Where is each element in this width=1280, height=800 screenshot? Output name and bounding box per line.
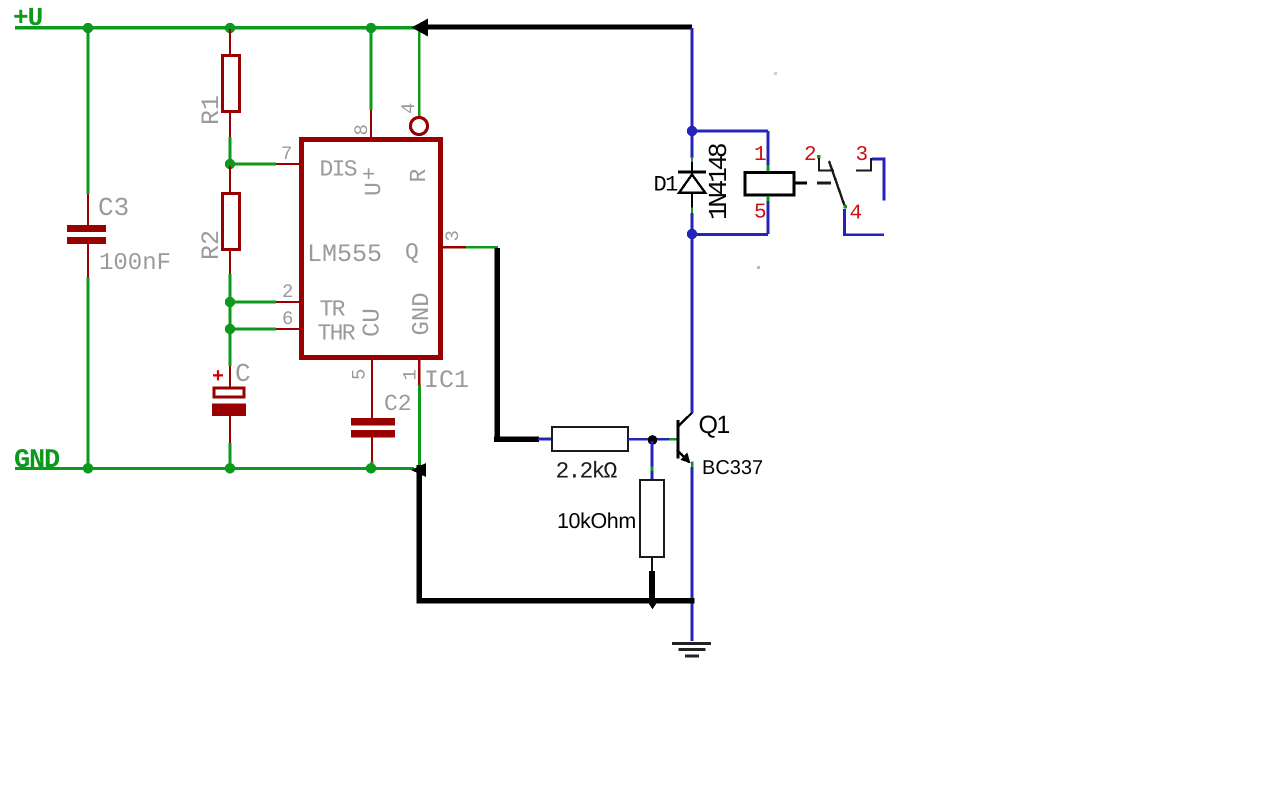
resistor 2.2k: [552, 427, 628, 485]
wire relay bottom horizontal: [692, 233, 768, 236]
wire 2.2k to base node: [628, 438, 677, 441]
junction blob 10k-emitter: [645, 598, 660, 609]
wire emitter blue: [691, 462, 694, 642]
wire GND rail: [15, 467, 414, 470]
resistor R1: [197, 29, 240, 137]
switch contact 3 number: [856, 144, 869, 167]
relay actuator stub: [795, 182, 807, 185]
wire relay pin5 vertical: [767, 196, 770, 234]
svg-text:1: 1: [400, 369, 422, 380]
relay pin number 5: [754, 202, 767, 225]
reset bubble pin4: [411, 118, 428, 135]
switch contact 3: [856, 158, 872, 172]
svg-text:3: 3: [856, 144, 869, 167]
pin number 1: [400, 369, 422, 380]
stray dot artifact 2: [774, 72, 777, 75]
junction dot GND-C2: [366, 463, 376, 473]
wire to 2.2k resistor: [538, 438, 552, 441]
svg-text:2.2kΩ: 2.2kΩ: [556, 459, 618, 485]
switch blade: [829, 161, 845, 207]
black V+ jumper wire with arrow: [412, 19, 693, 37]
relay coil K1: [745, 173, 794, 196]
junction dot TR: [225, 297, 235, 307]
wire pin8 V+: [370, 28, 373, 140]
svg-text:LM555: LM555: [307, 240, 382, 269]
svg-text:2: 2: [804, 144, 817, 167]
svg-text:R: R: [406, 169, 432, 183]
svg-text:D1: D1: [654, 173, 679, 198]
svg-text:R1: R1: [197, 95, 226, 125]
switch contact 4 number: [850, 203, 863, 226]
pin number 4: [398, 103, 420, 114]
svg-text:1: 1: [754, 144, 767, 167]
svg-text:4: 4: [850, 203, 863, 226]
wire pin5 CV: [371, 357, 373, 418]
black GND jumper wire with arrow: [411, 463, 694, 604]
diode D1 label: [654, 173, 679, 198]
svg-text:THR: THR: [318, 321, 356, 347]
IC1 reference label: [424, 366, 469, 395]
pin number 2: [282, 281, 293, 303]
svg-text:C: C: [235, 359, 251, 389]
junction dot C: [366, 23, 376, 33]
transistor value BC337: [702, 457, 763, 479]
svg-text:BC337: BC337: [702, 457, 763, 479]
svg-text:1N4148: 1N4148: [704, 144, 734, 220]
wire pin1 GND: [418, 357, 421, 468]
svg-text:R2: R2: [197, 230, 226, 260]
switch actuator dash: [817, 182, 831, 185]
svg-text:IC1: IC1: [424, 366, 469, 395]
svg-text:C3: C3: [98, 193, 129, 223]
resistor 10k: [557, 480, 664, 557]
wire C3 branch vertical: [87, 28, 90, 468]
svg-text:3: 3: [442, 230, 464, 241]
junction dot relay bottom: [687, 229, 697, 239]
svg-text:5: 5: [754, 202, 767, 225]
svg-text:U: U: [361, 182, 387, 196]
svg-text:CU: CU: [360, 308, 387, 337]
wire base node to 10k: [651, 441, 654, 480]
wire 10k bottom: [649, 557, 655, 601]
wire relay pin1 vertical: [767, 131, 770, 172]
svg-text:8: 8: [351, 124, 373, 135]
wire R1 to DIS node: [229, 137, 232, 164]
pin number 3: [442, 230, 464, 241]
svg-text:4: 4: [398, 103, 420, 114]
resistor R2: [197, 166, 240, 274]
svg-text:C2: C2: [384, 391, 412, 417]
junction dot GND-C: [225, 463, 235, 473]
switch contact 2: [817, 155, 834, 172]
junction dot base node: [648, 435, 658, 445]
svg-text:6: 6: [282, 308, 293, 330]
svg-text:Q: Q: [405, 240, 419, 266]
pin number 5: [349, 369, 371, 380]
junction dot DIS: [225, 159, 235, 169]
svg-text:2: 2: [282, 281, 293, 303]
wire R2 to TR/THR nodes: [229, 274, 232, 366]
stray dot artifact 1: [757, 266, 760, 269]
diode value 1N4148: [704, 144, 734, 220]
wire pin4 reset: [418, 28, 421, 116]
svg-text:GND: GND: [409, 292, 436, 335]
wire pin7 DIS: [230, 163, 299, 166]
node +U label: [13, 3, 42, 33]
svg-text:+: +: [212, 366, 224, 389]
relay pin number 1: [754, 144, 767, 167]
svg-text:100nF: 100nF: [99, 250, 171, 277]
junction dot A: [83, 23, 93, 33]
node GND label: [14, 446, 60, 476]
ground symbol: [672, 642, 711, 658]
svg-text:DIS: DIS: [320, 157, 357, 183]
junction dot relay top: [687, 126, 697, 136]
wire pin3 output: [440, 246, 498, 249]
capacitor C electrolytic: [212, 359, 251, 443]
pin number 8: [351, 124, 373, 135]
junction dot GND-C3: [83, 463, 93, 473]
pin number 7: [281, 143, 292, 165]
junction dot THR: [225, 324, 235, 334]
svg-text:TR: TR: [320, 297, 346, 323]
wire C to GND rail: [229, 443, 232, 468]
transistor Q1: [676, 413, 692, 464]
transistor Q1 label: [699, 411, 730, 439]
svg-text:Q1: Q1: [699, 411, 730, 439]
wire contact 4 blue: [843, 205, 884, 236]
capacitor C3: [67, 193, 171, 277]
svg-text:7: 7: [281, 143, 292, 165]
switch contact 2 number: [804, 144, 817, 167]
wire contact 3 blue: [872, 158, 885, 201]
svg-text:GND: GND: [14, 446, 60, 476]
svg-text:10kOhm: 10kOhm: [557, 509, 636, 533]
wire +V top rail: [15, 26, 418, 29]
capacitor C2: [351, 391, 412, 468]
pin number 6: [282, 308, 293, 330]
svg-text:5: 5: [349, 369, 371, 380]
wire relay top horizontal: [692, 130, 768, 133]
wire collector blue: [691, 234, 694, 413]
black Q output wire: [494, 248, 539, 442]
diode D1: [678, 131, 706, 234]
IC1 LM555 body: [302, 140, 441, 358]
wire pin2 TR: [230, 301, 299, 304]
wire pin6 THR: [230, 328, 299, 331]
junction dot B: [225, 23, 235, 33]
blue wire V+ to relay/diode node: [691, 28, 694, 131]
